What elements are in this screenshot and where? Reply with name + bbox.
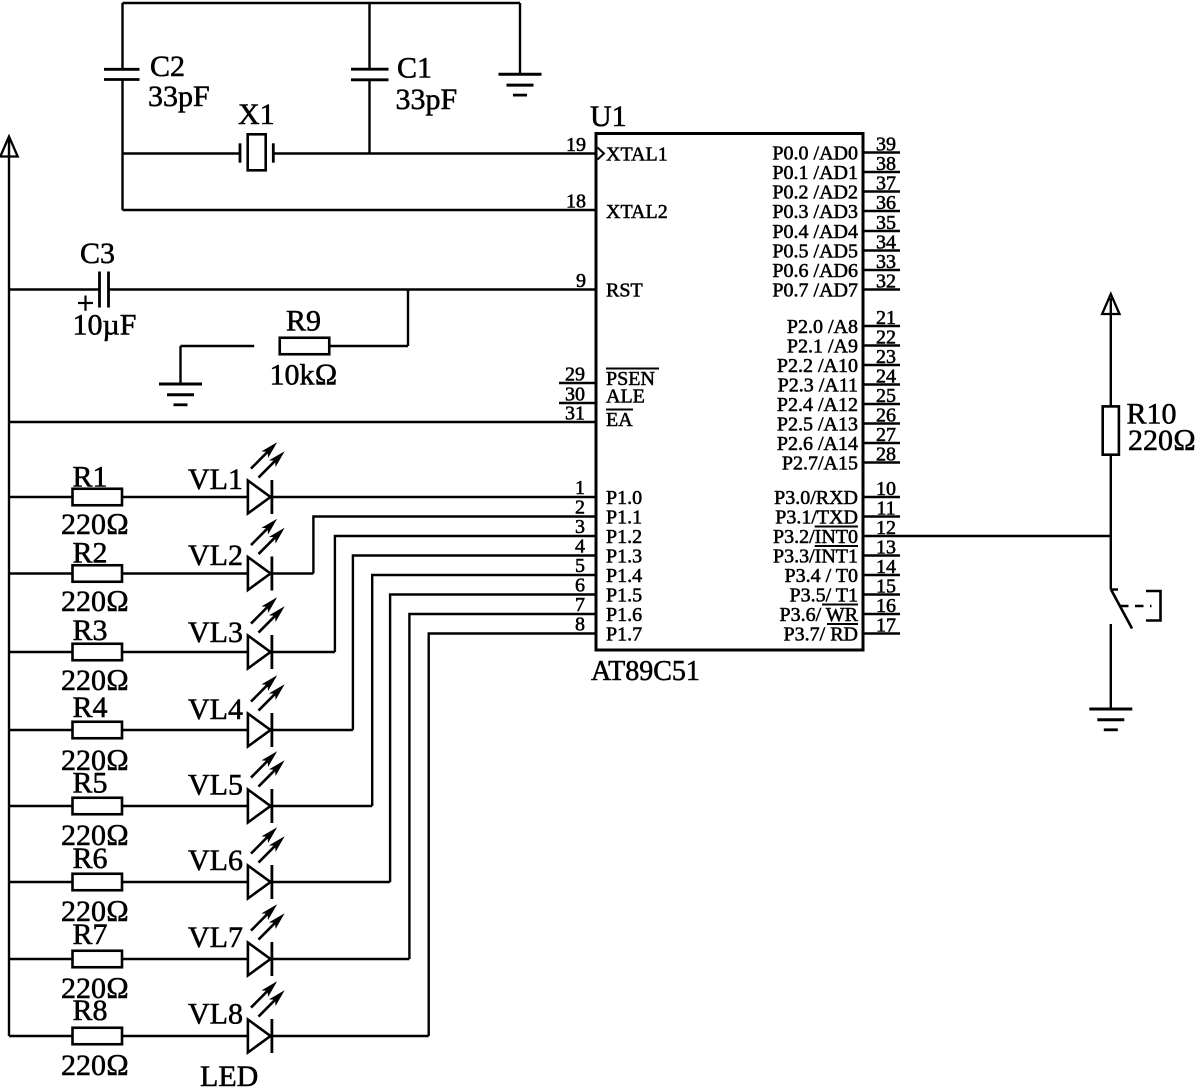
pin 16 P3.6/WR (779, 595, 900, 626)
pin 8 P1.7 (575, 614, 642, 646)
svg-text:33pF: 33pF (396, 83, 458, 116)
pin 14 P3.4/T0 (784, 556, 900, 587)
wire row5 rail to R5 (9, 805, 73, 807)
LED VL2 (188, 520, 283, 590)
wire VCC to R10 (1110, 298, 1112, 406)
pin 38 P0.1/AD1 (772, 153, 900, 184)
wire R3 to VL3 (122, 651, 248, 653)
resistor R4 (61, 691, 129, 777)
wire VL2 to riser (272, 572, 313, 574)
svg-text:R6: R6 (72, 842, 107, 875)
capacitor C2 (104, 50, 210, 113)
pin 3 P1.2 (575, 516, 642, 548)
svg-text:R2: R2 (72, 537, 107, 570)
pin 31 EA (565, 403, 633, 432)
resistor R6 (61, 842, 129, 928)
pin 34 P0.5/AD5 (772, 232, 900, 263)
wire C1 bottom to XTAL1 net (368, 80, 370, 154)
svg-text:220Ω: 220Ω (1128, 424, 1196, 457)
pin 37 P0.2/AD2 (772, 173, 900, 204)
wire VL3 to riser (272, 651, 335, 653)
wire R5 to VL5 (122, 805, 248, 807)
pin 33 P0.6/AD6 (772, 251, 900, 282)
IC U1 AT89C51 body (590, 100, 863, 687)
svg-text:9: 9 (576, 270, 586, 292)
pin 23 P2.2/A10 (777, 346, 900, 377)
wire C2 bottom to XTAL2 net (121, 80, 123, 211)
wire row4 rail to R4 (9, 729, 73, 731)
pin 29 PSEN (559, 364, 659, 391)
pin 27 P2.6/A14 (777, 424, 900, 455)
svg-text:C3: C3 (80, 237, 115, 270)
power VCC arrow right (1102, 294, 1119, 314)
wire VL7 to riser (272, 958, 409, 960)
pin 21 P2.0/A8 (787, 307, 900, 338)
svg-text:C2: C2 (150, 50, 185, 83)
switch S1 (1111, 590, 1161, 629)
svg-text:EA: EA (606, 409, 633, 431)
wire VL1 to pin 1 (272, 496, 596, 498)
wire riser row6 (390, 595, 596, 883)
wire VCC rail left (8, 140, 10, 1036)
pin 24 P2.3/A11 (778, 366, 900, 397)
svg-text:VL4: VL4 (188, 693, 243, 726)
wire riser row3 (335, 536, 596, 652)
svg-text:VL7: VL7 (188, 921, 243, 954)
wire C2 top branch (121, 3, 123, 69)
svg-text:19: 19 (566, 134, 586, 156)
resistor R3 (61, 614, 129, 697)
ground R9 (159, 384, 202, 405)
svg-text:33pF: 33pF (148, 80, 210, 113)
svg-text:RST: RST (606, 280, 643, 302)
ground switch (1089, 709, 1132, 730)
wire XTAL1 net right to pin 19 (273, 152, 596, 154)
wire row1 rail to R1 (9, 496, 73, 498)
wire switch to ground (1110, 624, 1112, 709)
wire RST net right to pin 9 (109, 288, 597, 290)
wire VL6 to riser (272, 881, 390, 883)
pin 11 P3.1/TXD (775, 498, 900, 529)
pin 9 RST (576, 270, 643, 302)
wire VL4 to riser (272, 729, 353, 731)
wire ground stem top (519, 3, 521, 74)
resistor R7 (61, 918, 129, 1005)
wire R4 to VL4 (122, 729, 248, 731)
svg-text:R1: R1 (72, 461, 107, 494)
resistor R2 (61, 537, 129, 619)
svg-text:R4: R4 (72, 691, 107, 724)
pin 36 P0.3/AD3 (772, 192, 900, 223)
pin 28 P2.7/A15 (782, 444, 900, 475)
wire RST net left (9, 288, 100, 290)
pin 30 ALE (559, 384, 645, 408)
svg-text:32: 32 (876, 271, 896, 293)
svg-text:VL5: VL5 (188, 769, 243, 802)
wire riser row7 (409, 614, 596, 959)
svg-text:29: 29 (565, 364, 585, 386)
svg-text:R9: R9 (286, 305, 321, 338)
ground top (499, 74, 542, 95)
svg-text:28: 28 (876, 444, 896, 466)
power VCC arrow left (0, 137, 17, 157)
LED VL5 (188, 753, 283, 823)
svg-text:220Ω: 220Ω (61, 1049, 129, 1082)
pin 1 P1.0 (575, 477, 642, 509)
LED VL7 (188, 906, 283, 976)
capacitor C1 (351, 52, 457, 117)
svg-text:8: 8 (575, 614, 585, 636)
svg-text:VL3: VL3 (188, 616, 243, 649)
wire R2 to VL2 (122, 572, 248, 574)
pin 39 P0.0/AD0 (772, 134, 900, 165)
pin 32 P0.7/AD7 (772, 271, 900, 302)
svg-text:LED: LED (200, 1060, 258, 1087)
svg-text:R8: R8 (72, 994, 107, 1027)
svg-text:P2.7/A15: P2.7/A15 (782, 453, 858, 475)
crystal X1 (238, 98, 275, 170)
LED VL8 (188, 983, 283, 1053)
svg-text:VL6: VL6 (188, 844, 243, 877)
wire row3 rail to R3 (9, 651, 73, 653)
LED VL4 (188, 677, 283, 747)
wire VL8 to riser (272, 1035, 429, 1037)
pin 25 P2.4/A12 (777, 385, 900, 416)
wire R10 to switch (1110, 455, 1112, 590)
wire top rail (123, 2, 521, 4)
svg-text:18: 18 (566, 191, 586, 213)
wire R1 to VL1 (122, 496, 248, 498)
wire R8 to VL8 (122, 1035, 248, 1037)
svg-text:P0.3 /AD3: P0.3 /AD3 (772, 201, 858, 223)
wire R9 ground stem (179, 346, 181, 384)
wire EA net to pin 31 (9, 421, 596, 423)
svg-text:R7: R7 (72, 918, 107, 951)
wire VL5 to riser (272, 805, 372, 807)
svg-text:VL1: VL1 (188, 463, 243, 496)
wire R9 left (181, 345, 255, 347)
pin 6 P1.5 (575, 575, 642, 607)
pin 2 P1.1 (575, 497, 642, 529)
wire riser row4 (353, 556, 596, 731)
LED VL6 (188, 829, 283, 899)
capacitor C3 (73, 237, 137, 342)
wire R7 to VL7 (122, 958, 248, 960)
svg-text:10µF: 10µF (73, 309, 137, 342)
wire XTAL2 net to pin 18 (123, 209, 597, 211)
wire row6 rail to R6 (9, 881, 73, 883)
svg-text:P1.7: P1.7 (606, 624, 642, 646)
pin 12 P3.2/INT0 (773, 517, 896, 548)
pin 4 P1.3 (575, 536, 642, 568)
svg-text:ALE: ALE (606, 386, 645, 408)
LED VL1 (188, 444, 283, 514)
wire riser row8 (429, 634, 596, 1037)
pin 17 P3.7/RD (784, 615, 900, 646)
pin 7 P1.6 (575, 594, 642, 626)
resistor R8 (61, 994, 129, 1082)
wire riser row2 (313, 517, 596, 574)
pin 35 P0.4/AD4 (772, 212, 900, 243)
LED VL3 (188, 599, 283, 669)
svg-text:P3.7/ RD: P3.7/ RD (784, 624, 858, 646)
pin 22 P2.1/A9 (787, 327, 900, 358)
svg-text:XTAL2: XTAL2 (606, 201, 668, 223)
pin 15 P3.5/T1 (789, 576, 900, 607)
svg-text:U1: U1 (590, 100, 627, 133)
pin 19 XTAL1 (566, 134, 668, 166)
pin 13 P3.3/INT1 (773, 537, 900, 568)
svg-text:XTAL1: XTAL1 (606, 144, 668, 166)
wire R9 riser to RST net (407, 290, 409, 347)
svg-text:R5: R5 (72, 767, 107, 800)
pin 10 P3.0/RXD (774, 478, 900, 509)
svg-text:R3: R3 (72, 614, 107, 647)
wire R9 right (329, 345, 408, 347)
svg-text:X1: X1 (238, 98, 275, 131)
resistor R10 (1103, 398, 1196, 458)
resistor R1 (61, 461, 129, 542)
svg-text:C1: C1 (397, 52, 432, 85)
wire INT0 net pin 12 to switch column (863, 535, 1111, 537)
wire XTAL1 net left (123, 152, 241, 154)
svg-text:17: 17 (876, 615, 896, 637)
svg-text:36: 36 (876, 192, 896, 214)
pin 26 P2.5/A13 (777, 405, 900, 436)
pin 5 P1.4 (575, 555, 642, 587)
resistor R9 (270, 305, 338, 392)
svg-text:10kΩ: 10kΩ (270, 359, 338, 392)
wire row7 rail to R7 (9, 958, 73, 960)
wire R6 to VL6 (122, 881, 248, 883)
svg-text:P0.7 /AD7: P0.7 /AD7 (772, 280, 858, 302)
svg-text:31: 31 (565, 403, 585, 425)
svg-text:VL8: VL8 (188, 998, 243, 1031)
svg-text:AT89C51: AT89C51 (591, 656, 700, 687)
pin 18 XTAL2 (566, 191, 668, 224)
wire riser row5 (372, 575, 596, 806)
resistor R5 (61, 767, 129, 853)
svg-text:VL2: VL2 (188, 539, 243, 572)
wire row8 rail to R8 (9, 1035, 73, 1037)
wire row2 rail to R2 (9, 572, 73, 574)
wire C1 top branch (368, 3, 370, 69)
